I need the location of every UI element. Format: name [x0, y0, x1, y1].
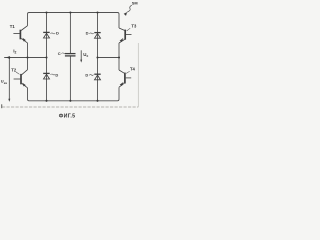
transistor T4	[119, 70, 131, 87]
label T2 leader	[16, 72, 20, 74]
transistor T2	[14, 70, 28, 88]
top rail wire	[28, 13, 120, 29]
junction dot top rail / D3	[96, 11, 98, 13]
faint page rule horizontal	[2, 106, 138, 108]
svg-text:D: D	[55, 72, 58, 77]
node A junction dot	[26, 56, 28, 58]
svg-text:T1: T1	[10, 24, 16, 29]
svg-text:T4: T4	[130, 67, 136, 72]
wire input line i2	[4, 57, 46, 59]
svg-text:T3: T3	[131, 24, 137, 29]
current arrow i2	[6, 56, 10, 59]
callout SM leader arrow	[124, 5, 132, 16]
label T3 leader	[127, 28, 131, 31]
wire capacitor branch upper	[69, 13, 71, 54]
wire diode D4 branch	[97, 58, 99, 101]
voltage arrow Uvx (input voltage)	[8, 58, 10, 102]
leader D2	[50, 73, 55, 76]
capacitor C	[65, 54, 76, 56]
junction dot D3-D4 mid	[96, 56, 98, 58]
junction dot bottom rail / D4	[96, 100, 98, 102]
wire T2 emitter to bottom rail corner	[28, 88, 30, 101]
wire diode D2 branch	[46, 58, 48, 101]
wire diode D1 branch	[46, 13, 48, 58]
wire node B down to T4 collector	[118, 58, 120, 71]
voltage arrow Uc	[80, 50, 82, 62]
diode D4	[94, 74, 100, 80]
leader D1	[50, 32, 55, 35]
node B junction dot	[118, 56, 120, 58]
leader C	[61, 52, 65, 55]
wire node D3-D4 to node B	[98, 57, 120, 59]
leader D3	[89, 32, 93, 35]
junction dot top rail / C	[69, 11, 71, 13]
diode D2	[43, 73, 50, 79]
wire T3 emitter down to node B	[118, 43, 120, 58]
wire node A down to T2 collector	[27, 58, 29, 70]
wire T1 emitter down to node A	[27, 43, 29, 58]
faint page rule left tick	[1, 104, 3, 108]
svg-text:ФИГ.5: ФИГ.5	[59, 114, 76, 120]
svg-text:D: D	[56, 31, 59, 36]
junction dot bottom rail / D2	[45, 100, 47, 102]
input junction dot	[8, 56, 10, 58]
faint page rule vertical right edge	[137, 43, 139, 107]
diode D3	[94, 33, 100, 39]
leader D4	[89, 74, 93, 77]
diode D1	[43, 32, 50, 38]
transistor T1	[13, 26, 27, 43]
junction dot node A / D1-D2	[45, 56, 47, 58]
svg-text:D: D	[86, 31, 89, 36]
svg-text:C: C	[58, 51, 61, 56]
transistor T3	[119, 28, 132, 43]
svg-text:SM: SM	[132, 0, 138, 5]
wire capacitor branch lower	[69, 56, 71, 101]
wire diode D3 branch	[97, 13, 99, 58]
bottom rail wire	[29, 100, 118, 102]
junction dot bottom rail / C	[69, 100, 71, 102]
svg-text:D: D	[85, 73, 88, 78]
svg-text:T2: T2	[11, 67, 17, 72]
junction dot top rail / D1	[45, 11, 47, 13]
label T4 leader	[126, 71, 130, 73]
wire T4 emitter to bottom rail corner	[118, 87, 120, 101]
